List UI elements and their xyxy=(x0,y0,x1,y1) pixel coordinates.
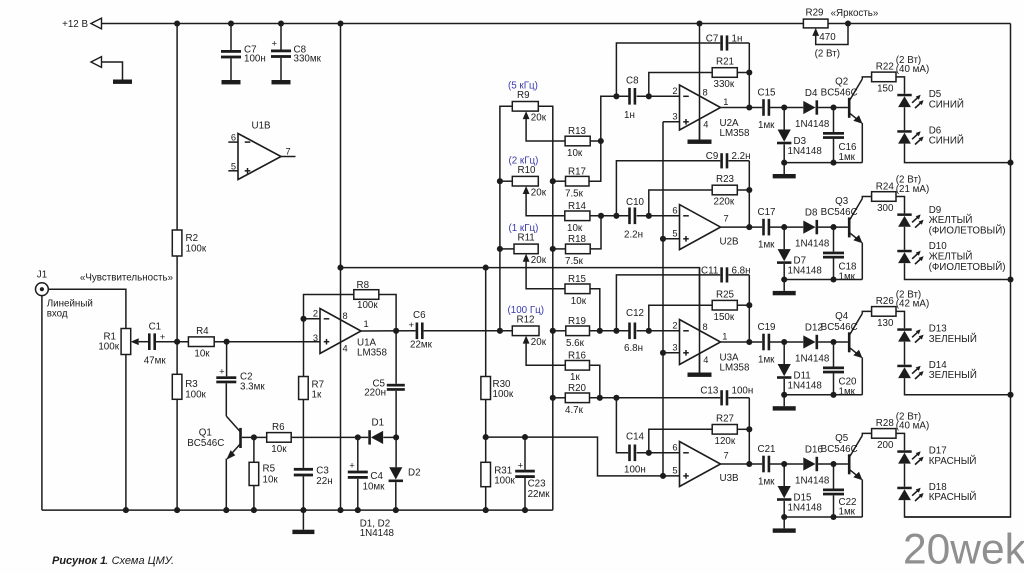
potentiometer R12 xyxy=(512,326,539,336)
wire R17 left to ground bus xyxy=(553,180,566,182)
svg-text:2.2н: 2.2н xyxy=(624,229,643,240)
svg-text:5: 5 xyxy=(672,229,677,239)
svg-text:(ФИОЛЕТОВЫЙ): (ФИОЛЕТОВЫЙ) xyxy=(929,225,1006,237)
wire emitter rail Q3 xyxy=(784,279,862,281)
svg-text:47мк: 47мк xyxy=(144,356,167,367)
node R4 C2 xyxy=(224,339,230,345)
svg-text:1: 1 xyxy=(723,97,728,107)
svg-text:R25: R25 xyxy=(716,289,735,300)
node right rail xyxy=(1007,392,1013,398)
wire R4 to U1A pin3 xyxy=(214,341,320,343)
capacitor C1 (polarized) xyxy=(148,333,151,350)
node U3B output xyxy=(746,461,752,467)
LED D13 xyxy=(897,328,911,331)
node emitter rail D15 xyxy=(781,514,787,520)
svg-text:Q1: Q1 xyxy=(199,428,212,439)
wire R12 wiper xyxy=(526,343,565,365)
op-amp U1B xyxy=(238,134,281,180)
node inverting input U2A xyxy=(646,93,652,99)
ground C8 xyxy=(272,80,291,84)
wire R8 to output xyxy=(379,295,396,331)
svg-text:8: 8 xyxy=(703,88,708,98)
svg-text:BC546C: BC546C xyxy=(187,438,224,449)
svg-text:5.6к: 5.6к xyxy=(566,338,585,349)
wire U1B pin7 stub xyxy=(281,156,296,158)
resistor R5 xyxy=(253,437,255,462)
LED D5 xyxy=(897,94,911,97)
LED D10 xyxy=(897,250,911,253)
wire D4 to base node xyxy=(818,107,848,109)
svg-text:D4: D4 xyxy=(805,88,818,99)
svg-text:10к: 10к xyxy=(194,349,210,360)
resistor R4 xyxy=(188,337,214,347)
svg-text:КРАСНЫЙ: КРАСНЫЙ xyxy=(929,491,977,503)
svg-text:4: 4 xyxy=(703,120,708,130)
svg-text:+: + xyxy=(219,366,225,377)
svg-text:Q4: Q4 xyxy=(835,311,849,322)
transistor Q2 BC546C xyxy=(848,98,851,118)
svg-text:(21 мА): (21 мА) xyxy=(896,184,929,195)
wire U3A pin4 ground xyxy=(699,354,701,373)
svg-text:330к: 330к xyxy=(714,79,735,90)
wire U3B non-inverting input xyxy=(663,475,680,477)
svg-text:20к: 20к xyxy=(531,187,547,198)
transistor Q1 BC546C xyxy=(239,428,242,448)
diode D16 1N4148 series xyxy=(803,457,815,470)
wire D9 to D10 xyxy=(904,227,906,250)
potentiometer R9 xyxy=(512,102,538,112)
svg-text:20wek: 20wek xyxy=(903,527,1024,574)
wire C13 to output xyxy=(748,398,750,430)
wire D15 to emitter rail xyxy=(783,501,785,517)
wire D6 to right rail xyxy=(905,144,1011,163)
wire R14 to node A2 xyxy=(590,215,629,217)
svg-text:U1B: U1B xyxy=(252,121,272,132)
svg-text:C1: C1 xyxy=(149,322,162,333)
svg-text:C12: C12 xyxy=(626,308,644,319)
node ground rail x125 xyxy=(123,507,129,513)
wire R30 to Vref node xyxy=(485,400,487,438)
svg-text:D8: D8 xyxy=(805,208,818,219)
svg-text:ЗЕЛЕНЫЙ: ЗЕЛЕНЫЙ xyxy=(929,369,977,381)
resistor R30 xyxy=(485,268,487,377)
node pot bus R11 xyxy=(497,246,503,252)
resistor R23 220к xyxy=(712,185,737,195)
svg-text:1N4148: 1N4148 xyxy=(788,146,823,157)
wire Vref bus xyxy=(662,122,664,476)
node ground rail x226 xyxy=(223,507,229,513)
svg-text:вход: вход xyxy=(47,308,68,319)
svg-text:BC546C: BC546C xyxy=(821,88,858,99)
svg-text:6: 6 xyxy=(672,443,677,453)
wire R7 to C3 xyxy=(302,400,304,468)
svg-text:(100 Гц): (100 Гц) xyxy=(508,305,545,316)
resistor R24 300 xyxy=(872,192,896,202)
wire C16 to emitter rail xyxy=(833,139,835,163)
svg-text:КРАСНЫЙ: КРАСНЫЙ xyxy=(929,455,977,467)
svg-text:R14: R14 xyxy=(568,201,587,212)
svg-text:C8: C8 xyxy=(626,76,639,87)
svg-text:BC546C: BC546C xyxy=(821,207,858,218)
wire U2B output xyxy=(721,226,763,228)
wire output vertical to pin xyxy=(748,190,750,227)
svg-text:200: 200 xyxy=(877,440,894,451)
svg-text:1мк: 1мк xyxy=(758,120,775,131)
wire U3A output xyxy=(721,341,763,343)
wire R13 node A1 xyxy=(590,96,629,141)
node R29 wiper xyxy=(845,20,851,26)
resistor R27 120к xyxy=(712,425,737,435)
wire R5 to rail xyxy=(253,486,255,511)
svg-text:100к: 100к xyxy=(357,300,378,311)
svg-text:100н: 100н xyxy=(244,54,266,65)
resistor R14 xyxy=(565,211,590,221)
node D8 anode xyxy=(781,224,787,230)
node top rail x340 xyxy=(337,20,343,26)
wire output vertical to pin xyxy=(748,429,750,464)
node ground rail x253 xyxy=(251,507,257,513)
wire C2 to Q1 collector xyxy=(225,383,227,416)
svg-text:10к: 10к xyxy=(271,444,287,455)
svg-text:R4: R4 xyxy=(196,326,209,337)
svg-text:22мк: 22мк xyxy=(528,489,551,500)
wire U1A pin2 stub xyxy=(304,318,321,320)
capacitor C16 1мк xyxy=(833,108,835,133)
wire C7 to output xyxy=(748,43,750,73)
node U1A output xyxy=(393,328,399,334)
resistor R17 xyxy=(566,176,590,186)
svg-text:R8: R8 xyxy=(357,280,370,291)
node A3 R15 xyxy=(597,328,603,334)
capacitor C14 100н xyxy=(628,445,631,462)
ground detector Q5 xyxy=(783,517,785,528)
svg-text:1N4148: 1N4148 xyxy=(788,380,823,391)
node pot bus signal xyxy=(497,328,503,334)
svg-text:Q3: Q3 xyxy=(835,196,849,207)
wire Q3 emitter xyxy=(861,243,863,280)
svg-text:3.3мк: 3.3мк xyxy=(240,382,265,393)
resistor R7 xyxy=(303,319,305,377)
svg-text:3: 3 xyxy=(672,343,677,353)
potentiometer R11 xyxy=(514,244,538,254)
wire U2A output xyxy=(721,107,763,109)
svg-text:1мк: 1мк xyxy=(758,355,775,366)
wire C15 to D node xyxy=(770,107,803,109)
svg-text:1н: 1н xyxy=(624,110,635,121)
wire C10 to op-amp xyxy=(637,215,680,217)
wire pot bus xyxy=(500,106,512,330)
svg-text:10мк: 10мк xyxy=(363,481,386,492)
wire D2 to rail xyxy=(395,482,397,510)
svg-text:(ФИОЛЕТОВЫЙ): (ФИОЛЕТОВЫЙ) xyxy=(929,261,1006,273)
svg-text:300: 300 xyxy=(877,203,894,214)
svg-text:Рисунок 1: Рисунок 1 xyxy=(52,555,106,567)
svg-text:R10: R10 xyxy=(518,165,537,176)
node Q3 base xyxy=(830,224,836,230)
wire R27 left xyxy=(649,429,712,453)
svg-text:(5 кГц): (5 кГц) xyxy=(508,81,538,92)
resistor R25 150к xyxy=(712,300,737,310)
svg-text:1: 1 xyxy=(722,332,727,342)
node U2A output xyxy=(746,104,752,110)
svg-text:22н: 22н xyxy=(316,476,332,487)
svg-text:8: 8 xyxy=(343,311,348,321)
svg-text:5: 5 xyxy=(672,466,677,476)
node A2 C9 xyxy=(613,213,619,219)
capacitor C23 (polarized) xyxy=(524,437,526,470)
capacitor C7 1н xyxy=(616,43,720,96)
svg-text:1: 1 xyxy=(364,319,369,329)
svg-text:3: 3 xyxy=(672,112,677,122)
svg-text:C17: C17 xyxy=(758,207,776,218)
wire U2B non-inverting input xyxy=(663,238,680,240)
svg-text:ЗЕЛЕНЫЙ: ЗЕЛЕНЫЙ xyxy=(929,333,977,345)
svg-text:150: 150 xyxy=(877,84,894,95)
svg-text:R18: R18 xyxy=(568,234,587,245)
op-amp U1A LM358 xyxy=(320,309,361,354)
wire common arrow to ground xyxy=(102,62,123,80)
wire R1 wiper to C1 xyxy=(139,341,149,343)
wire R23 right xyxy=(737,189,749,191)
node Vref divider xyxy=(483,434,489,440)
svg-text:C11: C11 xyxy=(701,265,718,276)
svg-text:R19: R19 xyxy=(568,316,586,327)
potentiometer R1 xyxy=(121,329,131,355)
wire D10 to right rail xyxy=(905,263,1011,279)
capacitor C21 1мк xyxy=(762,456,765,473)
svg-text:20к: 20к xyxy=(531,337,547,348)
wire R15 to node A3 xyxy=(590,289,600,331)
svg-text:220н: 220н xyxy=(364,388,386,399)
svg-text:100к: 100к xyxy=(186,244,207,255)
svg-text:22мк: 22мк xyxy=(410,339,433,350)
wire C22 to emitter rail xyxy=(833,495,835,517)
wire Q5 emitter xyxy=(861,479,863,517)
capacitor C12 6.8н xyxy=(628,323,631,340)
node Vref U3A xyxy=(660,350,666,356)
resistor R6 xyxy=(254,436,267,438)
svg-text:(40 мА): (40 мА) xyxy=(896,64,929,75)
wire C19 to D node xyxy=(770,341,803,343)
ground U3A pin4 xyxy=(688,373,712,377)
wire R10 wiper xyxy=(526,194,565,216)
capacitor C4 (polarized) xyxy=(357,437,359,470)
node ground bus y181 xyxy=(550,178,556,184)
node U3A output xyxy=(746,339,752,345)
wire R25 right xyxy=(737,304,749,306)
diode D2 1N4148 xyxy=(395,437,397,467)
capacitor C2 (polarized) xyxy=(226,342,228,377)
wire node A4 to C14 xyxy=(616,398,628,453)
svg-text:R11: R11 xyxy=(518,233,535,244)
node emitter rail C22 xyxy=(830,514,836,520)
svg-text:10к: 10к xyxy=(567,223,583,234)
resistor R18 xyxy=(566,244,591,254)
node inverting input U3B xyxy=(646,450,652,456)
svg-text:R5: R5 xyxy=(263,464,276,475)
ground common input xyxy=(113,80,132,84)
svg-text:220к: 220к xyxy=(714,197,735,208)
wire top rail right section xyxy=(828,23,1011,25)
wire C23 to rail xyxy=(524,478,526,510)
LED D17 xyxy=(897,450,911,453)
svg-text:4: 4 xyxy=(703,355,708,365)
svg-text:C9: C9 xyxy=(706,151,719,162)
wire U1B pin6 stub xyxy=(228,141,238,143)
potentiometer R10 xyxy=(512,176,538,186)
svg-text:(40 мА): (40 мА) xyxy=(896,421,929,432)
wire D18 to right rail xyxy=(905,500,1011,517)
node emitter rail C18 xyxy=(830,276,836,282)
wire U3A non-inverting input xyxy=(663,352,680,354)
svg-text:2: 2 xyxy=(313,309,318,319)
svg-text:R2: R2 xyxy=(186,233,199,244)
svg-text:Q5: Q5 xyxy=(835,433,849,444)
wire R19 right to C12 xyxy=(590,330,630,332)
wire C1 to node xyxy=(156,341,188,343)
resistor R21 330к xyxy=(712,68,737,78)
node D12 anode xyxy=(781,339,787,345)
svg-text:10к: 10к xyxy=(567,148,583,159)
svg-text:C14: C14 xyxy=(626,432,645,443)
capacitor C22 1мк xyxy=(833,464,835,489)
svg-text:1мк: 1мк xyxy=(758,240,775,251)
diode D11 1N4148 shunt xyxy=(783,342,785,364)
wire +12V top rail left section xyxy=(101,23,803,25)
wire R29 wiper to rail xyxy=(816,24,848,45)
svg-text:+12 В: +12 В xyxy=(62,19,88,30)
svg-text:R17: R17 xyxy=(568,166,586,177)
svg-text:1н: 1н xyxy=(732,33,743,44)
wire D3 to emitter rail xyxy=(783,144,785,162)
ground main rail symbol xyxy=(302,510,304,530)
svg-text:Q2: Q2 xyxy=(835,76,848,87)
capacitor C9 2.2н xyxy=(616,161,720,216)
svg-text:(2 Вт): (2 Вт) xyxy=(815,49,840,60)
svg-text:C15: C15 xyxy=(758,87,777,98)
node right rail xyxy=(1007,276,1013,282)
connector J1 xyxy=(36,283,49,296)
svg-text:R21: R21 xyxy=(716,57,734,68)
node emitter rail D11 xyxy=(781,392,787,398)
wire R9 wiper xyxy=(526,119,565,141)
wire R6 to detector line xyxy=(291,436,368,438)
wire J1 to ground rail xyxy=(41,296,43,511)
svg-text:+: + xyxy=(349,460,355,471)
svg-text:R27: R27 xyxy=(716,414,734,425)
node top rail x699 xyxy=(696,20,702,26)
svg-text:СИНИЙ: СИНИЙ xyxy=(929,98,964,110)
wire J1 to R1 xyxy=(48,289,126,328)
node Vref U2B xyxy=(660,236,666,242)
wire C5 to detector node xyxy=(395,391,397,438)
node A4 C14 xyxy=(613,395,619,401)
svg-text:2.2н: 2.2н xyxy=(732,151,751,162)
svg-text:R12: R12 xyxy=(517,315,535,326)
svg-text:150к: 150к xyxy=(714,312,735,323)
wire C21 to D node xyxy=(770,463,803,465)
op-amp U3B xyxy=(680,442,721,487)
capacitor C13 100н xyxy=(720,390,723,405)
svg-text:D2: D2 xyxy=(408,467,421,478)
wire D7 to emitter rail xyxy=(783,264,785,280)
svg-text:J1: J1 xyxy=(37,269,47,280)
resistor R19 xyxy=(566,326,590,336)
wire Q1 emitter to rail xyxy=(225,459,227,511)
wire R19 left to ground bus xyxy=(553,330,566,332)
diode D15 1N4148 shunt xyxy=(783,464,785,486)
svg-text:R9: R9 xyxy=(517,90,530,101)
wire Q1 base xyxy=(242,436,254,438)
svg-text:7: 7 xyxy=(286,147,291,157)
wire C14 to op-amp xyxy=(637,452,680,454)
node inverting input U2B xyxy=(646,213,652,219)
svg-text:100н: 100н xyxy=(624,465,646,476)
capacitor C20 1мк xyxy=(833,342,835,367)
resistor R31 xyxy=(481,462,491,486)
svg-text:1N4148: 1N4148 xyxy=(795,238,830,249)
node R25 output vertical xyxy=(746,302,752,308)
svg-text:R26: R26 xyxy=(876,296,895,307)
node Q4 base xyxy=(830,339,836,345)
node inverting input U3A xyxy=(646,328,652,334)
wire Q4 emitter xyxy=(861,357,863,394)
capacitor C3 xyxy=(294,468,313,471)
capacitor C11 6.8н xyxy=(616,275,720,331)
op-amp U3A xyxy=(680,320,721,365)
svg-text:7: 7 xyxy=(724,214,729,224)
svg-text:C19: C19 xyxy=(758,322,776,333)
wire R18 left to ground bus xyxy=(553,248,566,250)
svg-text:D1: D1 xyxy=(372,417,385,428)
wire U2A pin4 ground xyxy=(699,119,701,140)
wire D12 to base node xyxy=(818,341,848,343)
wire R18 right to node A2 xyxy=(590,216,601,249)
transistor Q4 BC546C xyxy=(848,332,851,352)
svg-text:2: 2 xyxy=(672,86,677,96)
capacitor C5 xyxy=(395,331,397,384)
wire ground bus xyxy=(538,106,553,510)
svg-text:R29: R29 xyxy=(806,7,824,18)
wire D11 to emitter rail xyxy=(783,379,785,395)
node bias R30 xyxy=(483,265,489,271)
svg-text:1N4148: 1N4148 xyxy=(795,475,830,486)
wire Vref feed to U3B pin5 xyxy=(486,437,663,476)
wire D16 to base node xyxy=(818,463,848,465)
ground detector Q3 xyxy=(783,280,785,291)
diode D3 1N4148 shunt xyxy=(783,108,785,130)
wire node A4 line to C13 xyxy=(590,397,721,399)
svg-text:C7: C7 xyxy=(706,33,719,44)
LED D6 xyxy=(897,130,911,133)
wire R1 to rail xyxy=(125,355,127,511)
potentiometer R29 470 xyxy=(803,19,828,28)
svg-text:R6: R6 xyxy=(272,422,285,433)
svg-text:R28: R28 xyxy=(876,418,895,429)
svg-text:R13: R13 xyxy=(568,126,587,137)
wire D13 to D14 xyxy=(904,342,906,365)
svg-text:R16: R16 xyxy=(568,351,587,362)
svg-text:R20: R20 xyxy=(568,383,587,394)
node Q1 base xyxy=(251,434,257,440)
capacitor C19 1мк xyxy=(762,334,765,351)
svg-text:6: 6 xyxy=(672,206,677,216)
wire R2 to input node xyxy=(176,256,178,342)
wire C20 to emitter rail xyxy=(833,373,835,394)
wire D17 to D18 xyxy=(904,464,906,487)
resistor R3 xyxy=(176,342,178,375)
svg-text:1мк: 1мк xyxy=(839,386,856,397)
